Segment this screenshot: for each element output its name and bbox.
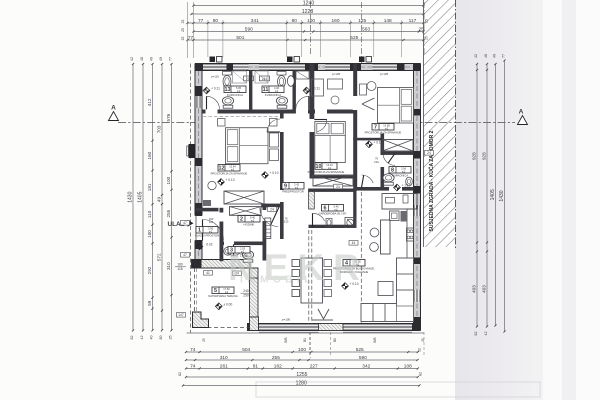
svg-text:40: 40 xyxy=(150,336,154,340)
property dashed line xyxy=(455,0,457,250)
svg-text:49: 49 xyxy=(157,197,162,203)
svg-text:100: 100 xyxy=(166,176,171,184)
svg-text:82: 82 xyxy=(178,372,182,376)
svg-text:1430: 1430 xyxy=(499,190,505,201)
svg-text:25: 25 xyxy=(425,19,429,23)
terrace top wall hatched xyxy=(192,260,259,279)
terrace top-left pier xyxy=(192,260,202,269)
svg-text:47: 47 xyxy=(183,253,187,257)
dining chairs xyxy=(292,260,300,267)
svg-text:255: 255 xyxy=(166,209,171,217)
svg-text:160: 160 xyxy=(147,151,152,159)
svg-text:25: 25 xyxy=(181,28,185,32)
svg-text:p=135: p=135 xyxy=(380,72,389,76)
dashed roofline under bathrooms xyxy=(203,116,278,118)
svg-text:59: 59 xyxy=(147,300,152,306)
room3 sink xyxy=(224,247,232,255)
svg-text:p=100: p=100 xyxy=(282,318,291,322)
faint second sheet edge bottom xyxy=(256,382,540,397)
svg-text:82: 82 xyxy=(130,336,134,340)
bath11 toilet xyxy=(276,97,287,105)
svg-text:1240: 1240 xyxy=(303,0,315,6)
bath8 sink xyxy=(406,177,413,186)
svg-text:+ 1.17: + 1.17 xyxy=(402,184,411,188)
section line A-A xyxy=(118,122,515,124)
wall x261-280 passage stub xyxy=(261,204,280,208)
terrace right wall hatched xyxy=(250,278,259,317)
svg-text:2: 2 xyxy=(240,217,243,223)
side table circle room7 xyxy=(367,82,376,91)
neighbour building hatched xyxy=(424,0,456,247)
exterior wall top xyxy=(195,64,421,71)
svg-text:590: 590 xyxy=(359,355,367,361)
svg-text:240: 240 xyxy=(243,289,249,293)
svg-text:25: 25 xyxy=(181,37,185,41)
door room10 xyxy=(317,120,327,132)
kitchen peninsula xyxy=(381,220,391,254)
level marker living xyxy=(342,282,359,289)
svg-text:210: 210 xyxy=(374,160,379,164)
svg-text:24: 24 xyxy=(336,185,340,189)
entrance opening left wall xyxy=(194,216,202,241)
svg-text:341: 341 xyxy=(251,18,259,24)
level marker bath11 xyxy=(303,87,320,94)
svg-text:82: 82 xyxy=(474,332,478,336)
svg-text:1430: 1430 xyxy=(128,191,134,202)
bench rects right of bed room12 xyxy=(270,133,279,147)
svg-text:+ 0.10: + 0.10 xyxy=(374,140,383,144)
door room7 bifold xyxy=(362,98,375,104)
corridor wall x280 xyxy=(280,114,284,240)
label room 10 xyxy=(315,163,337,170)
bath11 shower xyxy=(255,71,268,83)
roof overhang dashed outline xyxy=(190,64,192,334)
door room12 xyxy=(280,119,285,133)
svg-text:PROSTORIJA ZA SPAVANJE: PROSTORIJA ZA SPAVANJE xyxy=(365,131,402,135)
section marker A left xyxy=(109,105,119,121)
svg-text:52: 52 xyxy=(418,348,422,352)
label room 6 xyxy=(322,205,344,212)
coffee table xyxy=(378,282,393,296)
bed room7 xyxy=(378,88,414,124)
kitchen sink sq xyxy=(390,211,400,221)
vent marks above top wall xyxy=(210,57,216,63)
svg-text:210: 210 xyxy=(284,220,289,224)
svg-text:100: 100 xyxy=(298,347,306,353)
svg-text:B/B: B/B xyxy=(373,337,377,342)
top dimension chains xyxy=(194,5,424,7)
right counter xyxy=(407,209,414,262)
bottom wall dark end over terrace return xyxy=(250,324,259,331)
nightstands room12 xyxy=(218,119,226,127)
left dimension chains xyxy=(132,64,134,331)
svg-text:42: 42 xyxy=(484,332,488,336)
bath8 toilet xyxy=(383,174,394,182)
label room 5 xyxy=(212,287,234,294)
svg-text:110: 110 xyxy=(209,220,214,224)
entrance door leaf xyxy=(203,220,224,241)
svg-text:572: 572 xyxy=(157,253,162,261)
bath11 bidet xyxy=(287,76,294,87)
bath13 toilet xyxy=(222,97,233,105)
terrace bottom-right return wall hatched xyxy=(250,317,259,331)
svg-text:412: 412 xyxy=(147,98,152,106)
svg-text:+ 0.11: + 0.11 xyxy=(311,87,320,91)
svg-text:1405: 1405 xyxy=(490,189,496,200)
svg-text:KUPAONICA: KUPAONICA xyxy=(227,93,243,97)
svg-text:81: 81 xyxy=(253,363,259,369)
wardrobe X hallway 1 xyxy=(224,191,264,204)
wall y207.8 room1 north xyxy=(196,208,219,212)
washing machine room6 xyxy=(345,218,356,228)
svg-text:77: 77 xyxy=(502,54,506,58)
exterior wall bottom xyxy=(247,324,421,331)
label room 12 xyxy=(218,165,240,172)
svg-text:B1: B1 xyxy=(303,338,307,342)
bath13 shower xyxy=(233,71,247,83)
svg-text:49: 49 xyxy=(493,54,497,58)
right dimension chains xyxy=(476,64,478,327)
bar stools xyxy=(370,228,379,237)
svg-text:563: 563 xyxy=(362,26,370,32)
svg-text:342: 342 xyxy=(362,363,370,369)
door bath13 xyxy=(207,96,220,109)
svg-text:- 0.02: - 0.02 xyxy=(204,243,212,247)
scan shading bands right side xyxy=(0,0,1,1)
watermark overlay xyxy=(228,247,369,288)
door room9 top xyxy=(362,175,374,183)
closet room7 left xyxy=(360,84,367,95)
bed room12 xyxy=(226,128,269,164)
svg-text:48: 48 xyxy=(484,54,488,58)
svg-text:147: 147 xyxy=(178,313,184,317)
svg-text:928: 928 xyxy=(472,152,477,160)
wall x381 room9/room8 xyxy=(381,134,385,191)
svg-text:148: 148 xyxy=(384,18,392,24)
shoe cabinet entry xyxy=(203,200,211,206)
svg-text:80: 80 xyxy=(159,336,163,340)
svg-text:p=120: p=120 xyxy=(211,75,219,79)
room3 toilet xyxy=(242,251,253,259)
svg-text:82: 82 xyxy=(419,372,423,376)
wall between bath13 and bath11 xyxy=(249,71,252,114)
label room 7 xyxy=(372,124,394,131)
svg-text:B/B: B/B xyxy=(284,337,288,342)
svg-text:77: 77 xyxy=(198,18,204,24)
label bath 11 xyxy=(262,86,284,93)
wall right of bath11 shaft xyxy=(293,71,296,114)
svg-text:± 0.00: ± 0.00 xyxy=(223,302,232,306)
svg-text:125: 125 xyxy=(358,18,366,24)
sofa L xyxy=(361,258,414,322)
svg-text:525: 525 xyxy=(350,35,358,41)
svg-text:ULAZNI PROSTOR: ULAZNI PROSTOR xyxy=(195,234,220,238)
label room 3 xyxy=(228,247,250,254)
svg-text:A: A xyxy=(519,109,524,116)
svg-text:25: 25 xyxy=(181,20,185,24)
svg-text:49: 49 xyxy=(159,57,163,61)
svg-text:B0: B0 xyxy=(333,338,337,342)
axis dashed pair x310 xyxy=(308,230,310,324)
svg-text:p=135: p=135 xyxy=(332,72,341,76)
svg-text:703: 703 xyxy=(157,125,162,133)
svg-text:1405: 1405 xyxy=(138,191,144,202)
level marker room7 xyxy=(366,140,383,147)
label room 9 xyxy=(282,183,304,190)
svg-text:74: 74 xyxy=(190,363,196,369)
svg-text:41: 41 xyxy=(206,271,210,275)
svg-text:NATKRIVENA TERASA: NATKRIVENA TERASA xyxy=(208,294,238,298)
axis lines through top dims xyxy=(309,2,311,56)
svg-text:162: 162 xyxy=(274,363,282,369)
wardrobe X corridor 9 xyxy=(313,175,353,186)
svg-text:24: 24 xyxy=(270,208,274,212)
door hall-living xyxy=(260,208,278,227)
svg-text:+ 0.10: + 0.10 xyxy=(226,178,235,182)
wall above room3 xyxy=(220,242,267,246)
TV mark xyxy=(318,309,329,319)
lintel label boxes below top wall xyxy=(244,76,254,81)
svg-text:PROSTORIJA ZA SPAVANJE: PROSTORIJA ZA SPAVANJE xyxy=(308,170,345,174)
svg-text:77: 77 xyxy=(188,35,194,41)
svg-text:25: 25 xyxy=(421,338,425,342)
fridge dark xyxy=(401,211,407,222)
wall below bathrooms / north wall rooms 12+10 xyxy=(202,110,355,114)
level marker entry xyxy=(196,243,213,250)
svg-text:48: 48 xyxy=(140,57,144,61)
level marker bath8 xyxy=(394,184,411,191)
svg-text:1255: 1255 xyxy=(296,372,307,378)
svg-text:1280: 1280 xyxy=(296,380,307,386)
svg-text:160: 160 xyxy=(331,18,339,24)
svg-text:255: 255 xyxy=(272,355,280,361)
svg-text:525: 525 xyxy=(356,347,364,353)
svg-text:118: 118 xyxy=(177,267,182,271)
level marker bath13 xyxy=(203,87,220,94)
stair ladder xyxy=(265,218,271,239)
svg-text:80: 80 xyxy=(292,18,298,24)
svg-text:42: 42 xyxy=(130,57,134,61)
svg-text:501: 501 xyxy=(236,35,244,41)
svg-text:HODNIK: HODNIK xyxy=(244,223,255,227)
svg-text:IMMOBIL: IMMOBIL xyxy=(240,275,315,286)
window sill lines below bottom wall xyxy=(259,331,319,333)
svg-text:25: 25 xyxy=(202,338,206,342)
terrace corner column L xyxy=(193,312,209,328)
svg-text:227: 227 xyxy=(310,363,318,369)
svg-text:A: A xyxy=(111,105,116,112)
dining table xyxy=(301,258,323,303)
svg-text:100: 100 xyxy=(307,18,315,24)
terrace bottom open edge dashed xyxy=(195,327,251,329)
room6 walls xyxy=(309,189,357,192)
svg-text:292: 292 xyxy=(147,266,152,274)
spine wall x310 xyxy=(310,64,315,176)
exterior wall right xyxy=(414,64,421,331)
bottom dimension chains xyxy=(186,351,418,353)
svg-text:576: 576 xyxy=(166,113,171,121)
wall room7 lower y138 xyxy=(353,138,382,141)
svg-text:44: 44 xyxy=(352,241,356,245)
wall room10/room7 xyxy=(353,64,357,191)
svg-text:928: 928 xyxy=(482,152,487,160)
room6 small sink xyxy=(326,219,332,227)
svg-text:PROSTORIJA ZA SPAVANJE: PROSTORIJA ZA SPAVANJE xyxy=(211,172,248,176)
label bath 13 xyxy=(224,86,246,93)
svg-text:77: 77 xyxy=(169,57,173,61)
svg-text:310: 310 xyxy=(220,355,228,361)
svg-text:24: 24 xyxy=(427,151,431,155)
hall wall x220 xyxy=(220,208,224,261)
svg-text:25: 25 xyxy=(169,336,173,340)
wardrobe X room7 xyxy=(383,140,414,152)
svg-text:100: 100 xyxy=(147,230,152,238)
svg-text:590: 590 xyxy=(245,26,253,32)
svg-text:42: 42 xyxy=(474,54,478,58)
wardrobe X hallway 2 xyxy=(230,207,262,216)
level marker terrace xyxy=(215,302,232,309)
building interior white underlay xyxy=(195,64,421,331)
kitchen upper counter band xyxy=(382,194,417,210)
wall above room8 y152 xyxy=(381,152,414,155)
door room3 xyxy=(227,253,240,255)
svg-text:KUPAONICA: KUPAONICA xyxy=(392,174,408,178)
witness lines top dims xyxy=(187,2,189,58)
svg-text:25: 25 xyxy=(425,36,429,40)
closet room10 xyxy=(312,79,324,96)
section marker A right xyxy=(518,109,528,125)
label room 1 xyxy=(196,227,218,234)
svg-text:117: 117 xyxy=(409,18,417,24)
bath11 sink on top wall xyxy=(277,72,286,76)
level marker room12 xyxy=(218,178,235,185)
label room 8 xyxy=(389,167,411,174)
label room 2 xyxy=(238,216,260,223)
svg-text:110: 110 xyxy=(147,210,152,218)
label room 4 xyxy=(343,260,365,267)
exterior wall left xyxy=(195,64,202,268)
svg-text:108: 108 xyxy=(404,363,412,369)
svg-text:1228: 1228 xyxy=(302,9,314,15)
svg-text:310: 310 xyxy=(166,262,171,270)
svg-text:181: 181 xyxy=(147,183,152,191)
svg-text:49: 49 xyxy=(150,57,154,61)
svg-text:47: 47 xyxy=(183,221,187,225)
door bath11 xyxy=(296,96,309,109)
svg-text:250: 250 xyxy=(243,294,249,298)
svg-text:+ 0.10: + 0.10 xyxy=(270,171,279,175)
shaft hatch next to bath11 xyxy=(296,71,309,79)
level marker corridor xyxy=(262,171,279,178)
svg-text:42: 42 xyxy=(140,336,144,340)
svg-text:403: 403 xyxy=(472,285,477,293)
bottom wall centre pier xyxy=(319,324,344,331)
bed room10 xyxy=(315,122,346,163)
svg-text:PREDPROSTOR: PREDPROSTOR xyxy=(282,190,304,194)
svg-text:74: 74 xyxy=(190,347,196,353)
svg-text:504: 504 xyxy=(242,347,250,353)
svg-text:80: 80 xyxy=(213,18,219,24)
svg-text:GARDEROBA I/ILI SP.: GARDEROBA I/ILI SP. xyxy=(318,212,346,216)
svg-text:SUSJEDNA ZGRADA - KUĆA ZA ODMO: SUSJEDNA ZGRADA - KUĆA ZA ODMOR 2 xyxy=(427,130,435,231)
stool circle room12 xyxy=(208,181,216,189)
wall right of room3 xyxy=(263,204,267,261)
meter box outside left wall xyxy=(189,144,196,158)
svg-text:261: 261 xyxy=(220,363,228,369)
door room6 xyxy=(313,213,325,221)
stove burners xyxy=(407,228,414,241)
door bath8 xyxy=(383,153,395,165)
svg-text:+ 0.11: + 0.11 xyxy=(211,87,220,91)
svg-text:KUPAONICA: KUPAONICA xyxy=(265,93,281,97)
wall below room10 y175.5 xyxy=(310,176,355,179)
svg-text:403: 403 xyxy=(482,285,487,293)
terrace left open edge dashed xyxy=(194,268,196,324)
axis dashed x361 xyxy=(360,192,362,323)
wall below rooms 8/9 y188 xyxy=(355,187,414,191)
